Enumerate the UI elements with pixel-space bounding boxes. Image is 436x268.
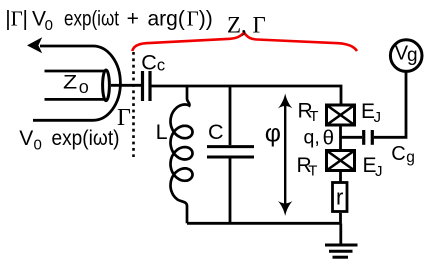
capacitor Cc xyxy=(141,51,165,102)
red brace for Z, Gamma xyxy=(132,33,357,52)
svg-text:L: L xyxy=(156,120,168,144)
svg-text:RT: RT xyxy=(297,154,318,180)
svg-text:Cc: Cc xyxy=(141,51,165,75)
svg-text:V0exp(iωt): V0exp(iωt) xyxy=(19,127,119,154)
wire Cg to Vg xyxy=(374,73,406,138)
node label q, theta xyxy=(304,127,335,150)
wire between junctions xyxy=(339,127,342,150)
svg-text:Z, Γ: Z, Γ xyxy=(227,13,266,38)
ground xyxy=(325,223,358,257)
josephson junction 1 box xyxy=(327,105,355,125)
reflected/incident wave curve xyxy=(33,46,120,120)
svg-text:|Γ|V0exp(iωt+arg(Γ)): |Γ|V0exp(iωt+arg(Γ)) xyxy=(5,7,213,34)
wire top xyxy=(152,86,342,104)
svg-text:φ: φ xyxy=(265,119,281,147)
svg-text:EJ: EJ xyxy=(363,154,383,180)
coax transmission line Z0 xyxy=(45,70,110,101)
svg-text:RT: RT xyxy=(298,99,319,125)
label RT 2 xyxy=(297,154,318,180)
svg-text:EJ: EJ xyxy=(361,100,381,126)
svg-text:Vg: Vg xyxy=(395,43,418,66)
inductor L xyxy=(156,86,193,223)
svg-text:C: C xyxy=(208,120,224,144)
wire bottom xyxy=(187,222,341,225)
label EJ 2 xyxy=(363,154,383,180)
reflected wave label xyxy=(5,7,213,34)
label EJ 1 xyxy=(361,100,381,126)
josephson junction 2 box xyxy=(327,151,355,171)
voltage source Vg xyxy=(390,40,422,72)
capacitor Cg xyxy=(364,130,415,166)
arrowhead of reflected wave xyxy=(27,37,42,53)
svg-text:Cg: Cg xyxy=(391,143,415,166)
wire coax to Cc xyxy=(111,84,141,87)
svg-text:Γ: Γ xyxy=(117,105,131,131)
incident wave label xyxy=(19,127,119,154)
wire island to Cg xyxy=(341,136,363,139)
svg-text:Z0: Z0 xyxy=(63,73,89,97)
capacitor C xyxy=(207,86,254,223)
reference plane dotted line xyxy=(132,52,135,157)
label RT 1 xyxy=(298,99,319,125)
resistor r xyxy=(333,172,348,223)
node label Gamma xyxy=(117,105,131,131)
svg-text:r: r xyxy=(336,184,343,209)
flux arrow phi xyxy=(265,94,293,216)
svg-text:q,θ: q,θ xyxy=(304,127,335,150)
label Z, Gamma xyxy=(227,13,266,38)
